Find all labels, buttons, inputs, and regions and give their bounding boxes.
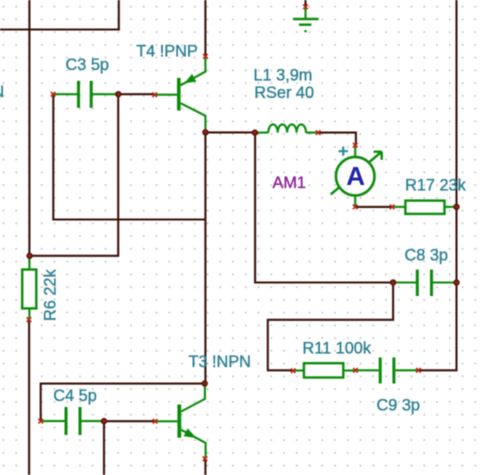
svg-text:N: N [0,83,4,101]
svg-text:C3 5p: C3 5p [66,56,109,74]
svg-text:R11 100k: R11 100k [303,340,372,358]
svg-text:T3 !NPN: T3 !NPN [189,353,251,371]
svg-text:C9 3p: C9 3p [377,396,420,414]
svg-text:A: A [346,161,365,191]
svg-text:C4 5p: C4 5p [53,387,96,405]
svg-text:L1 3,9m: L1 3,9m [254,67,313,85]
svg-text:RSer 40: RSer 40 [254,84,314,102]
svg-text:T4 !PNP: T4 !PNP [136,42,198,60]
svg-text:C8 3p: C8 3p [405,247,448,265]
svg-text:AM1: AM1 [273,174,306,192]
svg-text:R6 22k: R6 22k [41,269,59,321]
svg-text:R17 23k: R17 23k [405,177,467,195]
